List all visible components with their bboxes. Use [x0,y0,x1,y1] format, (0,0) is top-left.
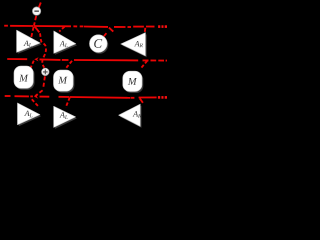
minus node [32,7,40,15]
minus sign [34,11,39,12]
arrowhead on H3 pointing left [34,95,38,99]
wire H1 tick to A_R3 top corner [144,28,147,32]
wire H3 to A_R6 top diagonal [140,98,143,102]
label A_R of amplifier A_R3 [134,41,143,47]
label A_L of amplifier A_L2 [59,41,67,47]
wire V1 diagonal from top edge into minus node [39,3,41,9]
bright dash chunks right edge of H1 [158,27,167,98]
label A_L of amplifier A_L5 [59,112,67,119]
label M of mixer M2 [58,77,67,84]
amplifier A_L2 (top row, second) [54,31,77,55]
wire H3 to A_L5 top diagonal [66,97,70,107]
amplifier A_L1 (top row, first) [17,30,42,54]
plus sign [43,70,48,75]
label A_L of amplifier A_L4 [24,111,32,118]
wire from plus node down [43,76,45,89]
wire junction J1 branch to triangle A_L1 top edge [31,27,33,38]
wire H1 top horizontal dashed line [4,25,8,27]
label C of node C [94,39,102,48]
arrowhead on H2 pointing left [34,57,38,61]
wire H1 tick to node C [104,33,107,36]
label A_R of amplifier A_R6 [133,111,142,118]
node C [90,35,109,54]
mixer M1 [14,66,35,90]
label A_L of amplifier A_L1 [23,41,31,47]
bright dash chunks right edge of H3 [158,96,160,99]
wire approach to H3 arrow [35,90,43,96]
wire H3 lower horizontal dashed line [5,95,11,97]
wire H2 to mixer M2 diagonal [66,61,72,68]
label M of mixer M3 [128,78,137,85]
amplifier A_R3 (top row, right; points left) [121,33,147,58]
amplifier A_L5 (bottom row, second) [54,106,77,129]
wire junction J1 branch toward A_L1 tip [35,27,40,33]
wire H2 to mixer M3 diagonal [141,61,147,68]
wire H1 small diagonal toward A_R3 tip [109,28,113,32]
wire curved dashed path around A_L1 tip down to plus node [40,33,46,67]
amplifier A_R6 (bottom row, right; points left) [119,104,142,128]
mixer M2 [54,70,75,93]
plus node [41,68,49,76]
wire H3 to A_L4 tip diagonal [32,99,39,106]
wire H2 arrow to mixer M1 corner diagonal [30,61,34,69]
amplifier A_L4 (bottom row, first) [18,103,42,126]
wire H1 tick to A_L2 top corner [59,27,64,32]
label M of mixer M1 [19,75,28,82]
wire H2 middle horizontal dashed line [7,58,27,60]
mixer M3 [123,71,144,93]
